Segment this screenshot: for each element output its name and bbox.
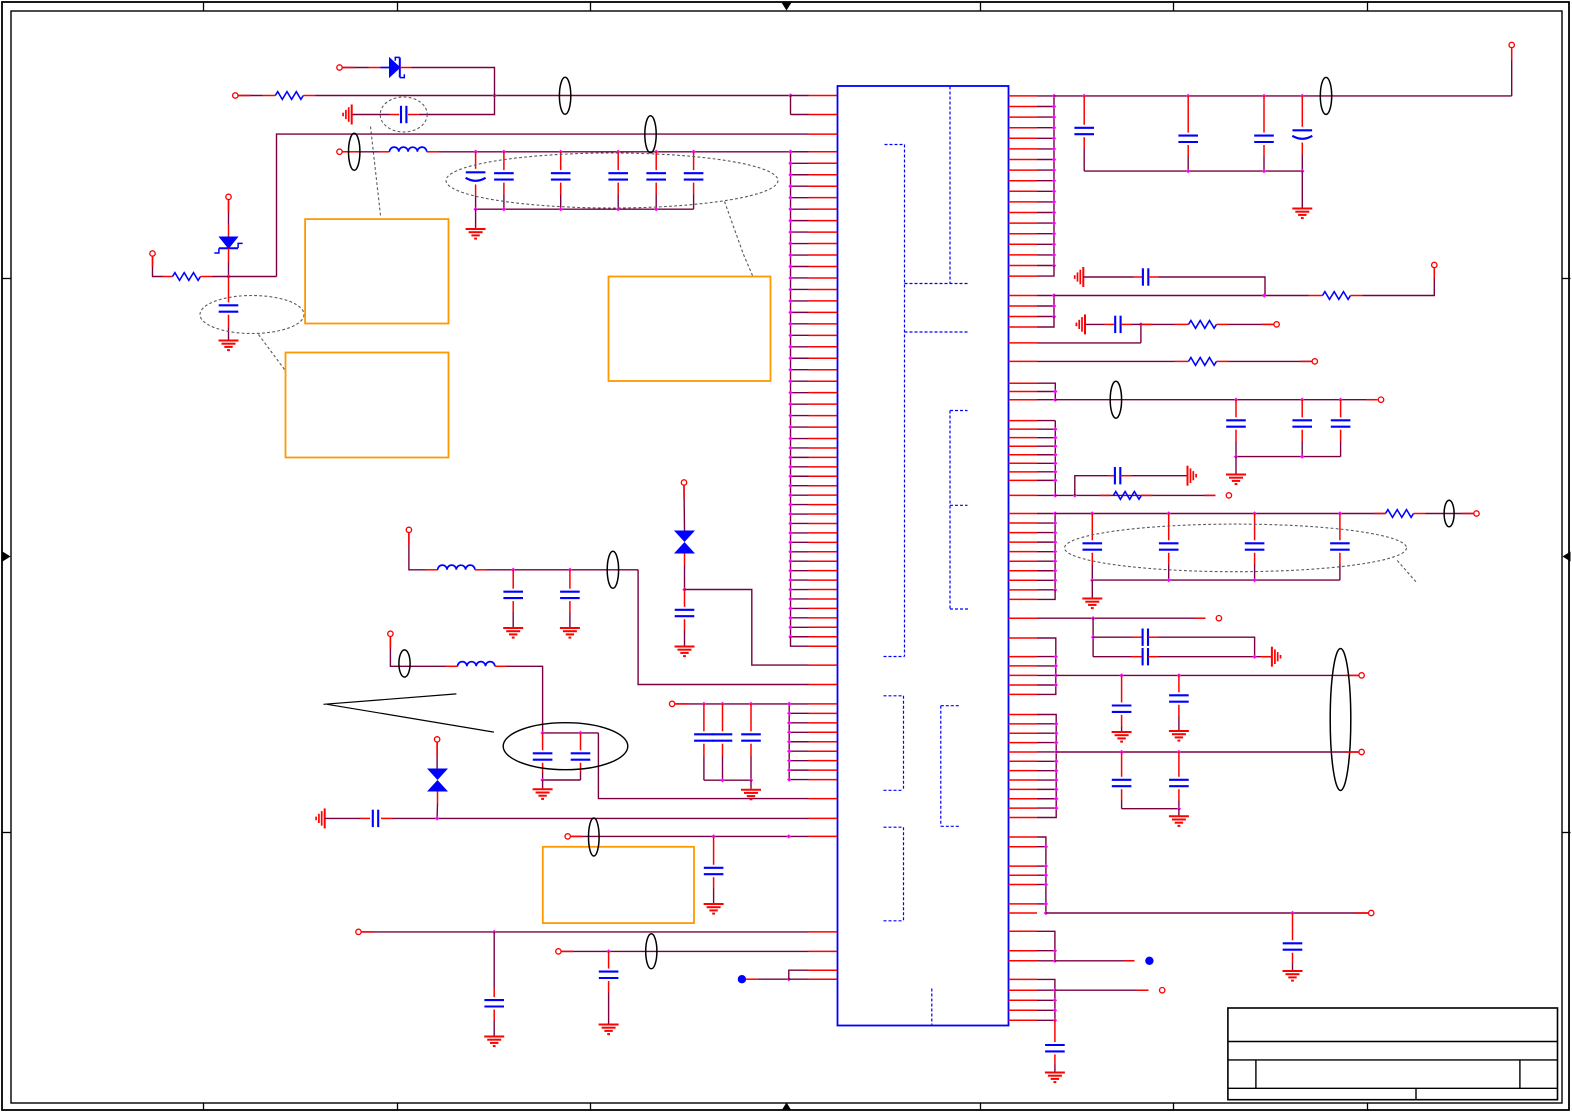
capacitor C20 — [1074, 96, 1094, 171]
wire net H — [362, 930, 809, 934]
IC pin group — [787, 702, 837, 782]
wire — [507, 666, 543, 733]
wire — [436, 743, 438, 769]
capacitor — [1245, 514, 1265, 581]
wire — [1090, 578, 1340, 582]
wire — [1426, 513, 1474, 515]
wire — [239, 95, 263, 97]
capacitor C2 — [219, 277, 239, 328]
IC right pin group E — [1009, 511, 1058, 599]
leader — [725, 202, 753, 276]
wire — [228, 328, 230, 340]
wire — [1132, 475, 1188, 477]
note box 1 — [305, 219, 448, 323]
pin — [1009, 360, 1038, 362]
wire — [436, 804, 438, 819]
pin — [809, 798, 838, 800]
capacitor C41 — [1045, 1020, 1065, 1071]
IC right pin group A — [1009, 94, 1057, 276]
wire net GND bus — [473, 207, 693, 211]
ferrite ellipse — [646, 934, 657, 969]
IC left pin bus — [788, 150, 837, 647]
note box 2 — [286, 353, 449, 458]
ground — [1045, 1073, 1065, 1083]
ground — [704, 904, 724, 914]
wire — [1083, 276, 1133, 278]
ground — [741, 790, 761, 800]
capacitor C36 — [1112, 675, 1132, 731]
capacitor C35 — [1132, 648, 1159, 665]
capacitor C10 — [533, 733, 553, 780]
wire — [1229, 360, 1312, 362]
wire — [343, 67, 369, 69]
terminal P6 — [406, 527, 411, 532]
terminal P15 — [1432, 262, 1437, 267]
IC right pin group G — [1009, 715, 1059, 818]
wire — [1159, 637, 1255, 657]
pin 1 — [809, 95, 838, 97]
wire — [791, 96, 809, 115]
wire — [1037, 360, 1175, 362]
terminal P1 — [337, 65, 342, 70]
TVS diode D4 — [427, 769, 448, 804]
ground — [1292, 209, 1312, 219]
terminal P12 — [356, 929, 361, 934]
IC right pin group C — [1009, 383, 1058, 402]
wire net M — [1055, 493, 1215, 497]
ferrite ellipse — [607, 551, 618, 588]
ferrite ellipse — [399, 650, 410, 677]
TVS diode D3 — [674, 531, 695, 566]
wire — [1093, 636, 1131, 638]
ferrite ellipse — [559, 77, 570, 114]
chassis ground — [316, 808, 325, 828]
chassis ground — [1188, 466, 1197, 486]
capacitor C21 — [1178, 96, 1198, 171]
terminal P3 — [226, 194, 231, 199]
pin — [809, 817, 838, 819]
leader — [1397, 561, 1417, 583]
wire — [390, 637, 445, 666]
capacitor — [1159, 514, 1179, 581]
wire — [1091, 618, 1095, 657]
wire net F — [675, 702, 791, 706]
wire — [409, 533, 426, 570]
capacitor C37 — [1169, 675, 1189, 730]
wire — [540, 778, 580, 782]
capacitor C5 — [551, 152, 571, 209]
pin — [809, 664, 838, 666]
wire — [352, 114, 390, 116]
wire — [638, 570, 808, 685]
wire — [1141, 323, 1175, 325]
capacitor C18 — [484, 932, 504, 1036]
ground — [533, 789, 553, 799]
capacitor C22 — [1254, 96, 1274, 171]
terminal P9 — [681, 480, 686, 485]
wire net G — [571, 834, 809, 838]
wire — [1363, 268, 1435, 295]
capacitor C1 — [390, 106, 419, 123]
capacitor C8 — [684, 152, 704, 209]
wire — [343, 151, 379, 153]
capacitor C34 — [1132, 629, 1159, 646]
wire — [1132, 323, 1141, 325]
terminal P2 — [233, 93, 238, 98]
capacitor C7 — [646, 152, 666, 209]
wire — [685, 590, 809, 666]
ground — [1082, 599, 1102, 609]
ferrite ellipse — [1444, 500, 1454, 527]
callout ellipse — [200, 296, 304, 334]
IC right pin group D — [1009, 421, 1058, 498]
capacitor C6 — [608, 152, 628, 209]
ferrite ellipse — [645, 116, 656, 153]
capacitor C25 — [1105, 316, 1132, 333]
ground — [1169, 816, 1189, 826]
wire — [1093, 656, 1131, 658]
wire — [750, 780, 752, 789]
wire — [412, 68, 495, 115]
wire — [1301, 171, 1303, 207]
pointer line — [324, 694, 457, 704]
callout ellipse — [446, 153, 778, 208]
capacitor C24 — [1134, 268, 1159, 285]
terminal P10 — [669, 701, 674, 706]
capacitor C17 — [704, 836, 724, 903]
ground — [1112, 732, 1132, 742]
pin — [809, 684, 838, 686]
capacitor — [713, 704, 733, 780]
ferrite ellipse — [1110, 381, 1121, 418]
wire — [1085, 323, 1105, 325]
terminal P25 — [1160, 988, 1165, 993]
wire — [789, 970, 809, 979]
capacitor — [1083, 514, 1103, 581]
capacitor C12 — [361, 810, 393, 827]
terminal P13 — [556, 949, 561, 954]
ground — [1226, 475, 1246, 485]
wire net S — [1055, 989, 1149, 991]
ground — [560, 628, 580, 638]
wire net E — [393, 816, 809, 820]
resistor R5 — [1175, 358, 1229, 366]
wire net O — [1037, 616, 1206, 620]
terminal P24 — [1369, 910, 1374, 915]
capacitor — [1330, 514, 1350, 581]
terminal P5 — [337, 149, 342, 154]
wire — [1122, 807, 1182, 811]
chassis ground — [1272, 647, 1281, 667]
capacitor — [1292, 400, 1312, 457]
pin 2 — [809, 114, 838, 116]
wire net D — [540, 731, 598, 735]
wire — [1037, 342, 1141, 344]
capacitor C29 — [1109, 467, 1132, 484]
pin — [809, 978, 838, 980]
pin — [809, 835, 838, 837]
ferrite ellipse — [589, 818, 600, 856]
terminal P8 — [434, 737, 439, 742]
wire net L — [1055, 398, 1377, 402]
resistor R4 — [1175, 321, 1229, 329]
pointer line — [327, 704, 494, 732]
inductor L2 — [446, 662, 507, 667]
IC right pin group F — [1009, 638, 1059, 694]
capacitor C3 — [466, 152, 486, 209]
IC right pin group I — [1009, 931, 1058, 963]
callout ellipse — [380, 97, 427, 132]
capacitor C23 — [1292, 96, 1312, 171]
big group ellipse — [1330, 649, 1351, 791]
wire — [325, 817, 361, 819]
leader — [259, 335, 285, 370]
terminal P19 — [1226, 493, 1231, 498]
wire net J — [1054, 94, 1512, 98]
wire — [1511, 48, 1513, 96]
ferrite ellipse — [1320, 77, 1331, 114]
resistor R3 — [1309, 292, 1363, 300]
wire — [683, 486, 686, 531]
pin — [809, 950, 838, 952]
wire — [1235, 457, 1237, 474]
leader — [371, 127, 381, 216]
pin — [1009, 342, 1038, 344]
wire — [1178, 809, 1180, 816]
capacitor C40 — [1283, 913, 1303, 970]
wire net C — [487, 568, 639, 572]
callout ellipse — [1065, 524, 1407, 572]
wire net A — [316, 93, 793, 97]
note box 4 — [543, 847, 694, 923]
wire — [277, 134, 809, 276]
wire net Q — [1056, 750, 1358, 754]
capacitor — [1226, 400, 1246, 457]
terminal P20 — [1474, 511, 1479, 516]
wire — [153, 257, 163, 277]
capacitor C4 — [494, 152, 514, 209]
no-connect marker — [1145, 957, 1153, 965]
capacitor C19 — [599, 951, 619, 1023]
capacitor C39 — [1169, 752, 1189, 809]
wire — [475, 209, 477, 228]
terminal P14 — [1509, 42, 1514, 47]
capacitor — [1331, 400, 1351, 457]
wire net K — [1054, 293, 1309, 297]
wire — [1055, 960, 1135, 962]
wire — [1075, 476, 1109, 496]
ground — [219, 341, 239, 351]
wire — [1084, 169, 1304, 173]
wire net N — [1055, 511, 1385, 515]
ground — [484, 1037, 504, 1047]
capacitor — [741, 704, 761, 780]
wire — [1159, 655, 1272, 659]
zener diode D2 — [214, 225, 242, 263]
no-connect marker — [738, 975, 746, 983]
ground — [1283, 971, 1303, 981]
terminal P22 — [1359, 673, 1364, 678]
resistor R1 — [263, 92, 316, 100]
group ellipse — [503, 723, 628, 770]
wire — [704, 778, 753, 782]
IC right pin group J — [1009, 979, 1058, 1022]
capacitor C9 — [560, 570, 580, 627]
pin 3 — [809, 133, 838, 135]
terminal P17 — [1312, 359, 1317, 364]
wire — [1159, 277, 1266, 296]
chassis ground — [1075, 267, 1084, 287]
wire — [1091, 580, 1093, 597]
terminal P23 — [1359, 749, 1364, 754]
terminal P7 — [388, 631, 393, 636]
wire — [598, 733, 808, 799]
terminal P21 — [1216, 616, 1221, 621]
IC right pin group B — [1009, 293, 1057, 327]
terminal P11 — [565, 834, 570, 839]
ground — [1169, 731, 1189, 741]
note box 3 — [609, 277, 771, 382]
capacitor C13 — [675, 590, 695, 646]
wire — [228, 200, 230, 225]
terminal P4 — [150, 251, 155, 256]
chassis ground — [1076, 314, 1085, 334]
pin — [809, 969, 838, 971]
ground — [466, 229, 486, 239]
wire — [542, 780, 544, 789]
wire net B — [439, 150, 809, 154]
pin — [809, 931, 838, 933]
capacitor C11 — [571, 733, 591, 780]
wire net P — [1056, 673, 1359, 677]
capacitor — [694, 704, 714, 780]
inductor L3 — [426, 565, 487, 570]
chassis ground — [343, 105, 352, 125]
capacitor C38 — [1112, 752, 1132, 809]
wire — [1139, 322, 1143, 343]
ferrite ellipse — [349, 133, 360, 170]
IC U1 — [838, 86, 1009, 1026]
wire — [1234, 454, 1341, 458]
IC right pin group H — [1009, 837, 1049, 915]
resistor R7 — [1386, 510, 1426, 518]
wire — [1205, 494, 1216, 496]
wire net I — [562, 949, 809, 953]
ground — [503, 628, 523, 638]
wire net R — [1046, 911, 1368, 915]
pin — [1009, 617, 1038, 619]
wire — [682, 566, 686, 592]
wire — [213, 276, 277, 278]
diode D1 — [369, 57, 412, 77]
resistor R6 — [1113, 492, 1152, 500]
capacitor C8 — [503, 570, 523, 627]
ground — [675, 647, 695, 657]
wire — [226, 263, 230, 279]
terminal P16 — [1274, 322, 1279, 327]
wire — [1229, 323, 1274, 325]
inductor L1 — [379, 147, 439, 152]
ground — [599, 1025, 619, 1035]
resistor R2 — [163, 273, 213, 281]
wire — [746, 977, 791, 981]
terminal P18 — [1378, 397, 1383, 402]
